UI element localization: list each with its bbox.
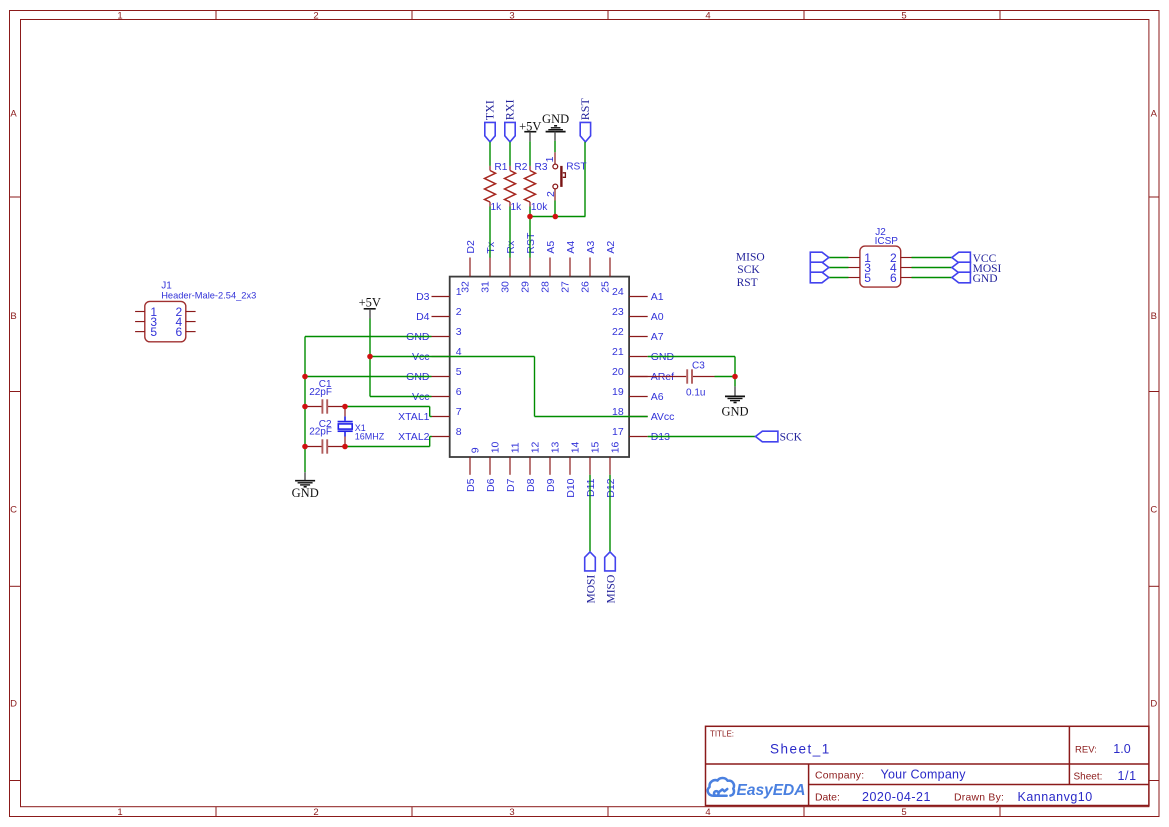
svg-text:20: 20 (612, 366, 624, 378)
svg-text:GND: GND (973, 273, 998, 285)
U1 pin 3 (GND) (406, 326, 462, 343)
svg-text:A: A (10, 109, 17, 120)
svg-text:22pF: 22pF (309, 387, 332, 398)
svg-text:A1: A1 (651, 291, 664, 303)
svg-text:Header-Male-2.54_2x3: Header-Male-2.54_2x3 (161, 291, 256, 301)
wire Vcc pin4 horizontal (through U1) (370, 356, 535, 358)
wire XTAL2 from C2/X1 junction (345, 437, 432, 447)
U1 pin 2 (D4) (416, 306, 462, 323)
wire J2 pin 5 to flag (829, 277, 849, 279)
U1 pin 20 (ARef) (612, 366, 674, 383)
svg-text:A: A (1151, 109, 1158, 120)
svg-text:1k: 1k (511, 202, 523, 213)
U1 pin 12 (D8) (525, 441, 542, 491)
J2 pin 3 lead (849, 267, 860, 269)
U1 pin 18 (AVcc) (612, 406, 674, 423)
U1 pin 23 (A0) (612, 306, 664, 323)
wire RST horizontal (530, 216, 585, 218)
svg-text:2: 2 (456, 306, 462, 318)
svg-text:A4: A4 (565, 241, 577, 254)
wire RST flag down (584, 142, 586, 217)
U1 pin 29 (RST) (520, 232, 537, 293)
svg-text:Vcc: Vcc (412, 391, 430, 403)
wire J2 pin 2 to flag (912, 257, 952, 259)
net flag MISO (bottom) (605, 552, 618, 604)
U1 pin 21 (GND) (612, 346, 674, 363)
svg-text:Company:: Company: (815, 770, 864, 781)
J2 pin 6 lead (901, 277, 912, 279)
svg-text:10: 10 (490, 441, 502, 453)
wire AVcc vertical inside U1 (534, 357, 536, 417)
junction C2 left (302, 444, 308, 450)
svg-text:29: 29 (520, 281, 532, 293)
svg-text:2: 2 (313, 10, 318, 21)
svg-text:5: 5 (901, 10, 906, 21)
svg-text:19: 19 (612, 386, 624, 398)
svg-text:SCK: SCK (737, 264, 760, 276)
wire GND to button pin 1 (554, 141, 556, 152)
svg-text:GND: GND (721, 405, 748, 419)
svg-text:XTAL1: XTAL1 (398, 411, 429, 423)
U1 pin 32 (D2) (460, 240, 477, 293)
svg-text:2020-04-21: 2020-04-21 (862, 790, 931, 804)
J2 pin 4 lead (901, 267, 912, 269)
wire GND pin5 horizontal (305, 376, 432, 378)
svg-text:1: 1 (117, 807, 122, 818)
U1 pin 19 (A6) (612, 386, 664, 403)
wire GND pin21 horizontal (648, 356, 735, 358)
svg-text:9: 9 (470, 447, 482, 453)
junction C3/GND (732, 374, 738, 380)
svg-text:Drawn By:: Drawn By: (954, 793, 1004, 804)
U1 pin 11 (D7) (505, 442, 522, 492)
svg-text:5: 5 (456, 366, 462, 378)
svg-text:A0: A0 (651, 311, 664, 323)
svg-text:GND: GND (651, 351, 675, 363)
junction R3/RST (527, 214, 533, 220)
svg-text:5: 5 (864, 271, 871, 285)
wire +5V left vertical (369, 319, 371, 397)
svg-text:RST: RST (737, 277, 758, 289)
svg-text:17: 17 (612, 426, 624, 438)
ground GND (at C3) (721, 377, 748, 419)
wire RXI to R2 (509, 142, 511, 166)
svg-text:22pF: 22pF (309, 426, 332, 437)
wire button pin 2 to RST net (554, 201, 556, 217)
svg-text:REV:: REV: (1075, 745, 1097, 756)
svg-text:12: 12 (530, 441, 542, 453)
svg-text:Your Company: Your Company (881, 768, 967, 782)
svg-text:D2: D2 (465, 240, 477, 254)
wire C1 left lead (305, 406, 322, 408)
U1 pin 26 (A3) (580, 241, 597, 293)
U1 pin 28 (A5) (540, 241, 557, 293)
svg-text:Vcc: Vcc (412, 351, 430, 363)
svg-text:SCK: SCK (780, 432, 803, 444)
svg-text:1.0: 1.0 (1113, 742, 1130, 756)
svg-text:8: 8 (456, 426, 462, 438)
svg-text:25: 25 (600, 281, 612, 293)
wire C1 right lead (328, 406, 345, 408)
U1 pin 6 (Vcc) (412, 386, 462, 403)
net flag GND (952, 272, 998, 285)
U1 pin 5 (GND) (406, 366, 462, 383)
U1 pin 31 (Tx) (480, 241, 497, 293)
svg-text:B: B (10, 311, 16, 322)
svg-text:Date:: Date: (815, 793, 840, 804)
net flag MOSI (952, 262, 1002, 275)
svg-text:MISO: MISO (605, 575, 617, 604)
svg-text:GND: GND (292, 486, 319, 500)
svg-text:MISO: MISO (736, 251, 765, 263)
svg-text:11: 11 (510, 442, 522, 453)
U1 pin 9 (D5) (465, 447, 482, 492)
capacitor C3 0.1u (686, 360, 705, 398)
U1 pin 22 (A7) (612, 326, 664, 343)
svg-text:16: 16 (610, 441, 622, 453)
svg-text:16MHZ: 16MHZ (355, 431, 385, 441)
pushbutton RST (544, 152, 586, 200)
svg-text:C: C (1150, 505, 1157, 516)
junction +5V/Vcc (367, 354, 373, 360)
svg-text:21: 21 (612, 346, 624, 358)
wire C2 right lead (328, 446, 345, 448)
connector J2 ICSP (860, 227, 901, 287)
svg-text:D: D (1150, 699, 1157, 710)
svg-text:15: 15 (590, 441, 602, 453)
U1 pin 4 (Vcc) (412, 346, 462, 363)
junction button/RST (553, 214, 559, 220)
wire J2 pin 4 to flag (912, 267, 952, 269)
svg-text:GND: GND (406, 331, 430, 343)
svg-text:GND: GND (406, 371, 430, 383)
svg-text:32: 32 (460, 281, 472, 293)
wire GND left vertical (304, 337, 306, 473)
svg-text:4: 4 (705, 807, 710, 818)
wire D13 to SCK flag (648, 436, 756, 438)
svg-text:A2: A2 (605, 241, 617, 254)
svg-text:C3: C3 (692, 360, 705, 371)
svg-text:1k: 1k (491, 202, 503, 213)
U1 pin 8 (XTAL2) (398, 426, 462, 443)
svg-text:MOSI: MOSI (585, 575, 597, 604)
U1 pin 1 (D3) (416, 286, 462, 303)
U1 pin 14 (D10) (565, 441, 582, 497)
wire GND pin21 vertical to junction (734, 357, 736, 377)
wire J2 pin 3 to flag (829, 267, 849, 269)
net flag left row 2 (810, 262, 829, 273)
net flag RXI (502, 100, 516, 142)
U1 pin 25 (A2) (600, 241, 617, 293)
title block (706, 726, 1149, 805)
svg-text:D3: D3 (416, 291, 430, 303)
connector J1 Header-Male-2.54_2x3 (135, 281, 256, 342)
svg-text:D4: D4 (416, 311, 430, 323)
svg-text:AVcc: AVcc (651, 411, 675, 423)
junction C1 right (342, 404, 348, 410)
svg-text:4: 4 (705, 10, 710, 21)
net flag left row 1 (810, 252, 829, 263)
J2 pin 5 lead (849, 277, 860, 279)
svg-text:7: 7 (456, 406, 462, 418)
power flag +5V (left) (359, 295, 381, 318)
power flag +5V (top) (519, 119, 541, 141)
svg-text:3: 3 (509, 807, 514, 818)
svg-text:D: D (10, 699, 17, 710)
wire R2 to U1 pin 30 (509, 207, 511, 258)
wire +5V to R3 (529, 141, 531, 166)
wire U1 pin15 to MOSI flag (589, 475, 591, 552)
svg-text:10k: 10k (531, 202, 548, 213)
wire U1 pin16 to MISO flag (609, 475, 611, 552)
svg-text:14: 14 (570, 441, 582, 453)
svg-text:A7: A7 (651, 331, 664, 343)
svg-text:D9: D9 (545, 478, 557, 492)
svg-text:ICSP: ICSP (875, 236, 899, 247)
wire AVcc horizontal to pin 18 (535, 416, 648, 418)
svg-text:5: 5 (901, 807, 906, 818)
svg-text:6: 6 (456, 386, 462, 398)
svg-text:2: 2 (313, 807, 318, 818)
svg-text:Rx: Rx (505, 240, 517, 254)
svg-text:24: 24 (612, 286, 624, 298)
svg-text:1: 1 (544, 156, 556, 162)
svg-text:6: 6 (176, 325, 183, 339)
wire C2 left lead (305, 446, 322, 448)
net flag left row 3 (810, 272, 829, 283)
svg-text:R1: R1 (494, 162, 507, 173)
svg-text:27: 27 (560, 281, 572, 293)
svg-text:D5: D5 (465, 478, 477, 492)
net flag VCC (952, 252, 997, 265)
U1 pin 10 (D6) (485, 441, 502, 491)
svg-text:RST: RST (525, 232, 537, 254)
svg-text:D12: D12 (605, 478, 617, 497)
svg-text:23: 23 (612, 306, 624, 318)
svg-text:D13: D13 (651, 431, 670, 443)
svg-text:B: B (1151, 311, 1157, 322)
svg-text:RST: RST (578, 98, 592, 121)
svg-text:D8: D8 (525, 478, 537, 492)
wire R1 to U1 pin 31 (489, 207, 491, 258)
net flag TXI (482, 100, 496, 142)
wire C3 to GND junction (715, 376, 736, 378)
svg-text:R3: R3 (535, 162, 548, 173)
wire C3 right lead (693, 376, 715, 378)
svg-text:D6: D6 (485, 478, 497, 492)
svg-text:26: 26 (580, 281, 592, 293)
svg-text:28: 28 (540, 281, 552, 293)
svg-text:D11: D11 (585, 478, 597, 497)
resistor R1 1k (485, 162, 508, 213)
capacitor C1 22pF (309, 379, 332, 414)
net flag RST top (578, 98, 592, 142)
U1 pin 13 (D9) (545, 441, 562, 491)
wire J2 pin 6 to flag (912, 277, 952, 279)
svg-text:GND: GND (542, 112, 569, 126)
J2 pin 2 lead (901, 257, 912, 259)
resistor R2 1k (505, 162, 528, 213)
wire TXI to R1 (489, 142, 491, 166)
svg-text:1: 1 (117, 10, 122, 21)
svg-text:XTAL2: XTAL2 (398, 431, 429, 443)
svg-text:Sheet_1: Sheet_1 (770, 742, 831, 757)
ground GND (top, at reset button) (542, 112, 569, 141)
svg-text:R2: R2 (514, 162, 527, 173)
svg-text:31: 31 (480, 281, 492, 293)
svg-text:A6: A6 (651, 391, 664, 403)
svg-text:30: 30 (500, 281, 512, 293)
svg-text:D7: D7 (505, 478, 517, 492)
svg-text:6: 6 (890, 271, 897, 285)
svg-text:ARef: ARef (651, 371, 674, 383)
svg-text:C: C (10, 505, 17, 516)
net flag SCK (756, 431, 803, 444)
resistor R3 10k (525, 162, 549, 213)
svg-text:0.1u: 0.1u (686, 388, 705, 399)
wire Vcc pin6 horizontal (370, 396, 432, 398)
svg-text:TXI: TXI (482, 100, 496, 120)
capacitor C2 22pF (309, 419, 332, 454)
J2 pin 1 lead (849, 257, 860, 259)
wire R3 to RST junction and U1 pin 29 (529, 207, 531, 258)
svg-text:EasyEDA: EasyEDA (737, 782, 806, 799)
crystal X1 16MHZ (338, 407, 385, 447)
svg-text:22: 22 (612, 326, 624, 338)
svg-text:A3: A3 (585, 241, 597, 254)
svg-text:1/1: 1/1 (1118, 769, 1137, 783)
U1 pin 30 (Rx) (500, 240, 517, 293)
svg-text:A5: A5 (545, 241, 557, 254)
svg-text:Tx: Tx (485, 241, 497, 253)
wire ARef lead to C3 (629, 376, 686, 378)
U1 pin 17 (D13) (612, 426, 670, 443)
svg-text:Kannanvg10: Kannanvg10 (1018, 790, 1093, 804)
EasyEDA logo (708, 778, 806, 799)
svg-text:13: 13 (550, 441, 562, 453)
IC U1 32-pin MCU body (450, 277, 629, 457)
svg-text:D10: D10 (565, 478, 577, 497)
U1 pin 27 (A4) (560, 241, 577, 293)
wire GND pin3 horizontal (305, 336, 432, 338)
junction GND/pin5 (302, 374, 308, 380)
svg-text:Sheet:: Sheet: (1074, 772, 1103, 783)
svg-text:RXI: RXI (502, 100, 516, 121)
U1 pin 24 (A1) (612, 286, 664, 303)
svg-text:RST: RST (566, 161, 586, 172)
U1 pin 15 (D11) (585, 441, 602, 497)
U1 pin 7 (XTAL1) (398, 406, 462, 423)
svg-text:3: 3 (456, 326, 462, 338)
svg-text:TITLE:: TITLE: (710, 730, 734, 739)
wire XTAL1 from C1/X1 junction (345, 407, 432, 417)
U1 pin 16 (D12) (605, 441, 622, 497)
svg-text:3: 3 (509, 10, 514, 21)
svg-text:+5V: +5V (359, 295, 381, 309)
net flag MOSI (bottom) (585, 552, 598, 604)
junction C2 right (342, 444, 348, 450)
junction C1 left (302, 404, 308, 410)
ground GND (bottom left) (292, 472, 319, 500)
svg-text:5: 5 (150, 325, 157, 339)
wire J2 pin 1 to flag (829, 257, 849, 259)
